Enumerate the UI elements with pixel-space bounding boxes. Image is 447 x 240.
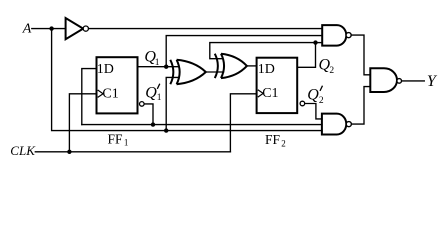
output bubble Q2' on FF2 xyxy=(300,101,305,106)
wire Q1 branch up to top NAND input 2 xyxy=(166,36,322,67)
svg-text:A: A xyxy=(22,21,32,36)
wire CLK run xyxy=(35,151,230,153)
wire Q2 feedback to XOR2 top input xyxy=(210,43,316,59)
flip-flop FF2 box xyxy=(257,58,298,113)
junction dot at Q1 xyxy=(164,65,168,69)
wire Q2' route into bottom NAND top input xyxy=(305,104,322,119)
svg-text:C1: C1 xyxy=(262,86,278,101)
XOR gate X1 xyxy=(170,60,206,84)
svg-text:Q: Q xyxy=(307,87,319,104)
wire H1 run to bottom NAND xyxy=(82,124,322,126)
junction dot A riser on H2 xyxy=(164,128,168,132)
junction dot Q1' on H1 xyxy=(151,122,155,126)
FF1 clock wedge xyxy=(98,90,103,97)
wire CLK riser to FF1 C1 xyxy=(69,94,96,152)
wire Q2 from FF2 up to junction xyxy=(297,43,315,68)
junction dot at A xyxy=(49,26,53,30)
wire XOR2 output to FF2 D xyxy=(247,65,257,67)
wire H2 riser to XOR1 bottom input xyxy=(166,77,179,130)
svg-text:1: 1 xyxy=(124,137,128,147)
wire Y output xyxy=(402,80,425,82)
wire Q1 from FF1 to XOR1 top input xyxy=(138,66,179,68)
wire A' inverter output to top NAND xyxy=(89,28,323,30)
NAND gate G1 (top) xyxy=(322,25,351,45)
wire Q2 junction into top NAND input 3 xyxy=(316,42,323,44)
svg-text:1: 1 xyxy=(157,93,162,103)
svg-text:1D: 1D xyxy=(258,62,275,77)
wire top NAND output down to final NAND xyxy=(351,35,370,75)
output bubble Q1' on FF1 xyxy=(140,102,145,107)
svg-text:Y: Y xyxy=(427,73,438,90)
node A input wire xyxy=(32,28,66,30)
svg-text:2: 2 xyxy=(281,138,286,148)
svg-text:1: 1 xyxy=(155,58,160,68)
wire Q1' route down to H1 xyxy=(144,104,153,125)
svg-text:2: 2 xyxy=(329,66,334,76)
NAND gate G2 (bottom) xyxy=(322,114,351,135)
inverter U1 xyxy=(66,18,89,39)
svg-text:2: 2 xyxy=(319,96,324,106)
NAND gate G3 (output) xyxy=(370,68,401,92)
flip-flop FF1 box xyxy=(97,57,138,113)
junction dot CLK to FF1 xyxy=(67,150,71,154)
junction dot Q2 feedback xyxy=(313,40,317,44)
svg-text:CLK: CLK xyxy=(10,143,36,158)
svg-text:1D: 1D xyxy=(97,62,114,77)
svg-text:FF: FF xyxy=(265,132,281,147)
FF2 clock wedge xyxy=(258,90,263,97)
wire FF1 D feed from H1 xyxy=(82,69,97,125)
wire A drop to H2 and H2 run to bottom NAND xyxy=(52,29,322,131)
svg-text:Q: Q xyxy=(145,84,157,101)
svg-text:C1: C1 xyxy=(102,86,118,101)
svg-text:FF: FF xyxy=(108,131,124,146)
wire CLK riser to FF2 C1 xyxy=(230,94,256,152)
wire bottom NAND output up to final NAND xyxy=(351,87,370,125)
XOR gate X2 xyxy=(215,54,247,78)
wire XOR1 output to XOR2 bottom input xyxy=(206,71,224,73)
